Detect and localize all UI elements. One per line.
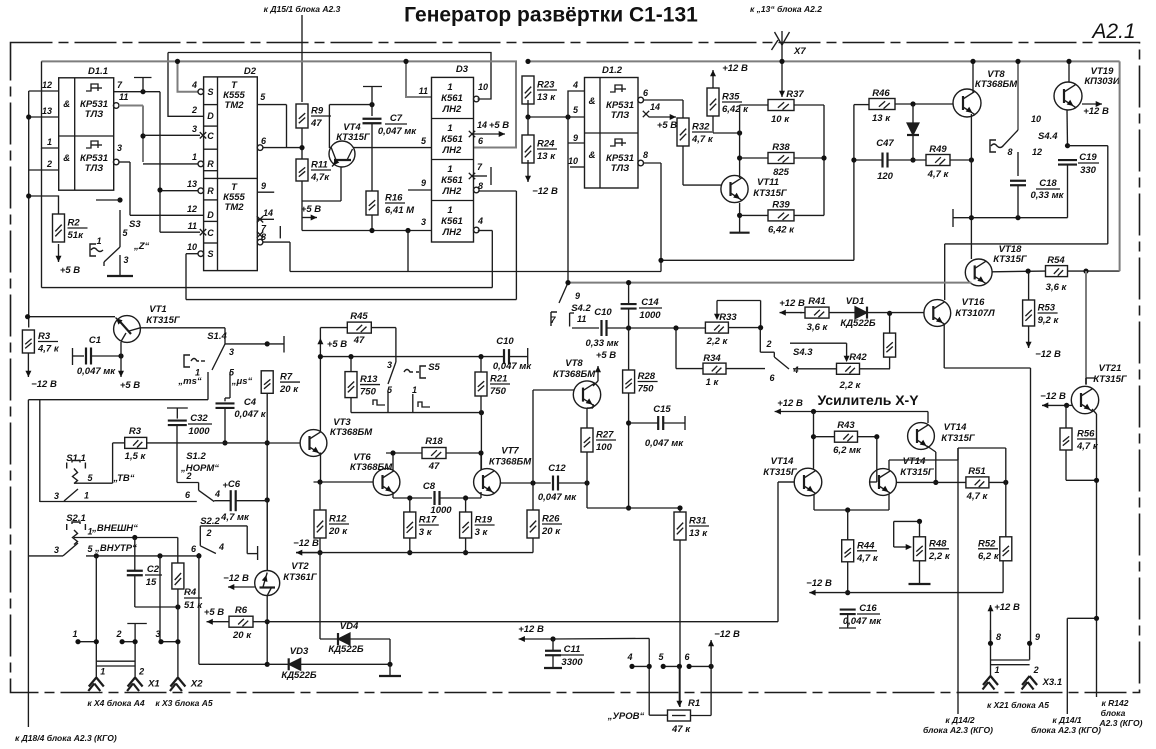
- svg-text:2: 2: [138, 667, 144, 677]
- svg-text:0,047 мк: 0,047 мк: [645, 438, 684, 449]
- wire S2.1 pin5 row: [86, 555, 199, 557]
- svg-text:11: 11: [577, 314, 586, 324]
- transistor VT7: [474, 469, 501, 496]
- svg-text:к Д14/2: к Д14/2: [945, 715, 975, 725]
- svg-text:S4.2: S4.2: [571, 303, 591, 314]
- svg-text:47: 47: [428, 461, 440, 472]
- label VT11: [757, 177, 779, 188]
- resistor R32: [677, 118, 714, 146]
- label C7: [378, 113, 417, 137]
- svg-text:ТЛЗ: ТЛЗ: [85, 109, 103, 120]
- svg-text:2: 2: [46, 159, 52, 169]
- capacitor C18: [1010, 181, 1026, 186]
- capacitor C19: [1058, 160, 1077, 165]
- svg-text:VT2: VT2: [291, 561, 309, 572]
- wire VD1 to VT16: [867, 312, 924, 314]
- switch S1.2: [185, 471, 220, 502]
- label -12 В R53: [1035, 349, 1061, 360]
- svg-text:120: 120: [877, 171, 894, 182]
- junction: [626, 505, 631, 510]
- wire R3 left to S1.1 pin5: [74, 443, 125, 483]
- svg-text:D1.1: D1.1: [88, 66, 108, 77]
- arrow -12V rail: [296, 550, 320, 556]
- svg-text:S1.4: S1.4: [207, 331, 227, 342]
- svg-text:к Х3 блока А5: к Х3 блока А5: [155, 698, 213, 708]
- svg-text:+5 В: +5 В: [596, 350, 616, 361]
- wire x649 down: [649, 638, 667, 715]
- svg-text:R56: R56: [1077, 429, 1095, 440]
- svg-text:3: 3: [192, 124, 197, 134]
- wire R16 bottom: [371, 215, 373, 231]
- label УРОВ: [607, 711, 645, 722]
- svg-text:КТ368БМ: КТ368БМ: [975, 79, 1018, 90]
- svg-text:47: 47: [353, 335, 365, 346]
- junction X7 node: [779, 59, 784, 64]
- wire C15 left: [629, 422, 659, 424]
- svg-text:R9: R9: [311, 106, 324, 117]
- wire D1.2 pin10 stub: [570, 166, 585, 168]
- svg-text:0,047 мк: 0,047 мк: [378, 126, 417, 137]
- svg-text:3,6 к: 3,6 к: [1046, 282, 1068, 293]
- junction: [369, 102, 374, 107]
- wire VT4 collector up: [329, 105, 372, 148]
- svg-text:0,047 мк: 0,047 мк: [538, 492, 577, 503]
- arrow +5V at D3 pin14: [474, 131, 505, 137]
- svg-text:4: 4: [792, 365, 798, 375]
- wire R41 to VD1: [829, 312, 855, 314]
- connector X1 pin2: [127, 667, 160, 692]
- X mark D2 pin7: [257, 232, 263, 238]
- arrow -12V pin6: [708, 640, 714, 652]
- arrow R2 to +5V: [56, 244, 62, 262]
- label 0,047 мк C12: [538, 492, 577, 503]
- label C47: [876, 138, 894, 149]
- junction: [811, 434, 816, 439]
- label VT19: [1091, 66, 1114, 77]
- svg-text:A2.1: A2.1: [1090, 20, 1135, 43]
- wire S1.4 pin5 to C4: [225, 372, 230, 401]
- wire VD3 right: [301, 663, 390, 665]
- svg-text:ЛН2: ЛН2: [442, 145, 462, 156]
- svg-text:11: 11: [188, 221, 197, 231]
- junction pin7: [140, 89, 145, 94]
- wire R56 top: [1065, 405, 1067, 428]
- label КТ315Г at VT18: [993, 254, 1028, 265]
- svg-text:X3.1: X3.1: [1042, 677, 1063, 688]
- wire C10 right bar: [509, 348, 528, 364]
- wire rail x813 down: [813, 412, 815, 469]
- svg-text:20 к: 20 к: [232, 630, 252, 641]
- svg-text:Генератор развёртки С1-131: Генератор развёртки С1-131: [404, 4, 698, 27]
- label VT14 top: [944, 422, 967, 433]
- svg-text:КТ315Г: КТ315Г: [941, 433, 976, 444]
- switch S1.1: [54, 453, 135, 501]
- wire C6 right: [236, 500, 267, 502]
- wire R18 right: [446, 453, 481, 470]
- capacitor C14: [621, 304, 637, 309]
- wire R33 wiper loop: [717, 301, 761, 328]
- svg-text:C16: C16: [859, 603, 877, 614]
- junction: [175, 59, 180, 64]
- svg-text:C10: C10: [594, 307, 612, 318]
- label VT7: [501, 446, 519, 457]
- junction: [969, 215, 974, 220]
- switch S5: [373, 360, 441, 407]
- wire C19 bottom: [1067, 165, 1069, 218]
- resistor R43: [833, 420, 862, 456]
- switch S4.2: [550, 283, 591, 327]
- svg-text:VT14: VT14: [771, 456, 794, 467]
- junction: [565, 280, 570, 285]
- arrow -12V VT21: [1042, 402, 1067, 408]
- svg-text:D1.2: D1.2: [602, 65, 623, 76]
- svg-text:+12 В: +12 В: [777, 398, 803, 409]
- svg-text:S4.3: S4.3: [793, 347, 813, 358]
- wire VT2 emitter rail: [266, 500, 268, 571]
- wire C15 right bar: [663, 416, 685, 430]
- switch S4.3: [760, 328, 813, 383]
- resistor R37 potentiometer: [768, 89, 804, 125]
- IC D1.1 КР531ТЛ3: [42, 66, 128, 190]
- arrow VT2 base -12V: [228, 584, 255, 590]
- resistor R2: [53, 214, 88, 242]
- capacitor C16: [840, 610, 856, 615]
- svg-text:к Д15/1 блока А2.3: к Д15/1 блока А2.3: [264, 4, 341, 14]
- label КП303И: [1084, 76, 1120, 87]
- wire R44 top: [847, 510, 849, 540]
- resistor R18: [422, 436, 446, 472]
- junction: [658, 258, 663, 263]
- label C6: [228, 479, 241, 490]
- svg-text:2: 2: [191, 105, 197, 115]
- junction: [157, 187, 162, 192]
- wire D2 pin13 stub: [160, 190, 198, 192]
- label КД522Б VD4: [328, 644, 364, 655]
- svg-text:„ВНУТР“: „ВНУТР“: [94, 543, 137, 554]
- junction: [988, 641, 993, 646]
- cable bars X3.1: [991, 660, 1030, 665]
- wire VD3 row: [267, 663, 289, 665]
- svg-text:−12 В: −12 В: [293, 538, 319, 549]
- terminator above pin7: [134, 78, 152, 92]
- svg-text:КТ315Г: КТ315Г: [336, 132, 371, 143]
- wire R26 bottom: [532, 538, 534, 553]
- svg-text:3 к: 3 к: [475, 527, 489, 538]
- label КТ368БМ VT7: [489, 457, 532, 468]
- junction: [845, 590, 850, 595]
- wire R35 bottom: [713, 116, 740, 133]
- svg-text:4: 4: [214, 489, 220, 499]
- label C15: [653, 404, 671, 415]
- label VT18: [999, 244, 1022, 255]
- svg-text:А2.3 (КГО): А2.3 (КГО): [1099, 718, 1143, 728]
- svg-text:0,33 мк: 0,33 мк: [1031, 190, 1065, 201]
- wire R51 right: [989, 481, 1006, 483]
- pin 8 X3.1: [996, 632, 1001, 642]
- wire x676 down: [675, 328, 677, 369]
- wire rail x41 to pin1: [42, 61, 59, 148]
- resistor R53: [1023, 300, 1060, 326]
- resistor R38: [768, 142, 794, 178]
- svg-text:VT16: VT16: [962, 297, 985, 308]
- junction: [758, 325, 763, 330]
- svg-text:&: &: [589, 96, 596, 107]
- label +12 В above R35: [722, 63, 748, 74]
- junction: [1094, 616, 1099, 621]
- svg-text:+12 В: +12 В: [518, 624, 544, 635]
- svg-text:6,41 М: 6,41 М: [385, 205, 415, 216]
- svg-text:к Д18/4 блока А2.3 (КГО): к Д18/4 блока А2.3 (КГО): [15, 733, 117, 743]
- label VT2: [291, 561, 309, 572]
- svg-text:13 к: 13 к: [537, 92, 556, 103]
- svg-text:13: 13: [42, 106, 52, 116]
- resistor R52: [978, 537, 1012, 562]
- svg-text:R16: R16: [385, 193, 403, 204]
- transistor VT21: [1071, 386, 1098, 413]
- wire VT6 emitter: [393, 492, 432, 498]
- resistor R9: [296, 104, 331, 129]
- label КТ315Г at VT11: [753, 188, 788, 199]
- svg-text:R1: R1: [688, 698, 700, 709]
- svg-text:C19: C19: [1079, 152, 1097, 163]
- connector X3.1 pin1: [983, 665, 1000, 690]
- svg-text:3: 3: [54, 545, 59, 555]
- svg-text:VD1: VD1: [846, 296, 864, 307]
- junction: [687, 664, 692, 669]
- wire X2 pin3 stub: [161, 641, 178, 643]
- arrow R35 to +12V: [710, 70, 716, 88]
- pin 4: [626, 652, 632, 662]
- wire R13 top: [350, 357, 352, 372]
- svg-text:ТЛЗ: ТЛЗ: [611, 110, 629, 121]
- svg-text:к R142: к R142: [1102, 698, 1129, 708]
- arrow R42 wiper: [844, 343, 850, 362]
- wire S1.4 common to rail: [225, 343, 267, 345]
- svg-text:−12 В: −12 В: [1035, 349, 1061, 360]
- wire right rail x824: [794, 105, 824, 215]
- svg-text:X1: X1: [147, 679, 160, 690]
- resistor R27: [581, 428, 616, 453]
- svg-text:12: 12: [187, 204, 197, 214]
- svg-text:к Д14/1: к Д14/1: [1052, 715, 1082, 725]
- svg-text:+5 В: +5 В: [657, 120, 677, 131]
- svg-text:VT8: VT8: [565, 358, 583, 369]
- junction VT21 base node: [1064, 403, 1069, 408]
- svg-text:КТ315Г: КТ315Г: [993, 254, 1028, 265]
- svg-text:ЛН2: ЛН2: [442, 227, 462, 238]
- wire to D1.2 pin4: [568, 91, 585, 117]
- label КД522Б VD3: [281, 670, 317, 681]
- svg-text:3,6 к: 3,6 к: [807, 322, 829, 333]
- wire VT11 collector rail: [740, 105, 768, 178]
- resistor R24: [522, 135, 557, 163]
- wire rail x198 down: [199, 556, 267, 664]
- resistor R16: [366, 191, 415, 216]
- svg-text:C12: C12: [548, 463, 566, 474]
- svg-text:R28: R28: [638, 371, 656, 382]
- junction: [479, 410, 484, 415]
- svg-text:3: 3: [54, 491, 59, 501]
- resistor R3 1.5k: [125, 426, 147, 462]
- junction: [917, 519, 922, 524]
- svg-text:VT7: VT7: [501, 446, 519, 457]
- svg-text:+5 В: +5 В: [120, 380, 140, 391]
- wire VT8mid base: [533, 390, 574, 483]
- label КТ368БМ VT3: [330, 427, 373, 438]
- wire R12 bottom: [319, 538, 321, 553]
- svg-text:4: 4: [477, 216, 483, 226]
- label C1: [89, 335, 101, 346]
- arrow R53 -12V: [1026, 326, 1032, 348]
- svg-text:2: 2: [185, 471, 191, 481]
- arrow VT8mid +5V: [595, 350, 616, 372]
- svg-text:C7: C7: [390, 113, 403, 124]
- svg-text:блока А2.3 (КГО): блока А2.3 (КГО): [923, 725, 993, 735]
- IC D1.2 КР531ТЛ3: [568, 65, 660, 188]
- wire +5V rail y356: [320, 356, 504, 358]
- junction: [565, 114, 570, 119]
- arrow +12V XY: [775, 409, 814, 415]
- svg-text:+5 В: +5 В: [327, 339, 347, 350]
- junction: [647, 664, 652, 669]
- svg-text:КТ368БМ: КТ368БМ: [330, 427, 373, 438]
- svg-text:S1.1: S1.1: [66, 453, 86, 464]
- wire x958 output: [958, 447, 1006, 449]
- svg-text:КТ315Г: КТ315Г: [763, 467, 798, 478]
- svg-text:C6: C6: [228, 479, 241, 490]
- label к R142: [1102, 698, 1129, 708]
- pin 6: [684, 652, 690, 662]
- svg-text:8: 8: [996, 632, 1001, 642]
- wire R3 right to rail: [147, 442, 267, 444]
- svg-text:C32: C32: [190, 413, 208, 424]
- svg-text:2: 2: [115, 629, 121, 639]
- svg-text:1: 1: [47, 137, 52, 147]
- wire X7 down: [781, 45, 783, 61]
- svg-text:КТ315Г: КТ315Г: [900, 467, 935, 478]
- label C14: [639, 297, 662, 321]
- svg-text:R44: R44: [857, 540, 875, 551]
- svg-text:R42: R42: [849, 352, 867, 363]
- terminator above C7: [363, 87, 382, 117]
- wire y412 row: [351, 390, 481, 413]
- wire R31 top: [679, 508, 681, 512]
- resistor R13: [345, 372, 380, 398]
- label VD1: [846, 296, 864, 307]
- wire -12V row XY: [809, 561, 1003, 592]
- ground under R48: [909, 583, 931, 585]
- label КД522Б VD1: [840, 318, 876, 329]
- resistor R7: [261, 371, 300, 395]
- label КТ315Г: [336, 132, 371, 143]
- junction: [478, 354, 483, 359]
- transistor VT8 top: [953, 89, 981, 117]
- wire D2 pin10 stub: [186, 253, 198, 255]
- junction: [626, 280, 631, 285]
- switch S3: [90, 210, 150, 265]
- svg-text:К561: К561: [441, 175, 463, 186]
- wire to D2 pin R1: [143, 163, 198, 165]
- resistor R54: [1046, 255, 1068, 293]
- arrow VT1 emitter +5V: [118, 356, 124, 377]
- wire VD4 feed: [320, 553, 338, 639]
- wire R41 left: [800, 312, 805, 314]
- wire R17 bottom: [409, 538, 411, 553]
- wire R43 left: [814, 436, 835, 438]
- junction: [478, 450, 483, 455]
- wire D1.2 pin9 feed: [568, 117, 585, 143]
- svg-text:3: 3: [229, 347, 234, 357]
- label КТ315Г 14t: [941, 433, 976, 444]
- svg-text:2,2 к: 2,2 к: [839, 380, 862, 391]
- capacitor C12: [553, 476, 558, 491]
- svg-text:9,2 к: 9,2 к: [1038, 315, 1060, 326]
- wire VT1 emitter: [120, 342, 122, 356]
- IC D2 К555ТМ2: [187, 66, 273, 271]
- label +5 В: [60, 265, 80, 276]
- svg-text:C4: C4: [244, 397, 257, 408]
- wire S4.4 pin12 to C18: [1017, 152, 1019, 176]
- wire X1 pin2 stub: [122, 641, 135, 643]
- svg-text:14: 14: [650, 102, 660, 112]
- wire k R142 down: [1096, 618, 1098, 697]
- svg-text:51 к: 51 к: [184, 600, 203, 611]
- label VT21: [1099, 363, 1122, 374]
- net label к Д15/1 блока А2.3: [264, 4, 341, 14]
- label 0,047 мк under C1: [77, 366, 116, 377]
- wire R49 right: [950, 159, 971, 161]
- wire R34 right: [726, 368, 765, 370]
- svg-text:S: S: [207, 87, 213, 97]
- label C12: [548, 463, 566, 474]
- svg-text:КТ315Г: КТ315Г: [1093, 374, 1128, 385]
- wire pin4 stub: [632, 665, 649, 667]
- svg-text:C: C: [207, 131, 214, 141]
- svg-text:D2: D2: [244, 66, 257, 77]
- junction R9 R11: [299, 145, 304, 150]
- svg-text:X2: X2: [190, 679, 203, 690]
- svg-text:блока А2.3 (КГО): блока А2.3 (КГО): [1031, 725, 1101, 735]
- label 0,047 мк C16: [843, 616, 882, 627]
- wire VT8 collector: [972, 61, 974, 93]
- wire C16 bottom bar: [839, 614, 856, 628]
- svg-text:к „13“ блока А2.2: к „13“ блока А2.2: [750, 4, 822, 14]
- svg-text:1: 1: [72, 629, 77, 639]
- capacitor C47: [883, 153, 888, 168]
- svg-text:4: 4: [626, 652, 632, 662]
- label +5 В near R11: [301, 204, 321, 215]
- wire to D2 pin C3: [143, 134, 200, 136]
- wire R34 left: [676, 368, 703, 370]
- wire S2.1 pin3: [28, 555, 63, 557]
- svg-text:S4.4: S4.4: [1038, 131, 1058, 142]
- svg-text:R52: R52: [978, 538, 996, 549]
- capacitor C10 0.047: [504, 349, 509, 364]
- svg-text:S1.2: S1.2: [186, 451, 206, 462]
- label 120: [877, 171, 894, 182]
- svg-text:R6: R6: [235, 605, 248, 616]
- junction S3 top: [117, 197, 122, 202]
- wire X2 pin3 drop: [159, 556, 161, 642]
- svg-text:1: 1: [96, 236, 101, 246]
- svg-text:11: 11: [419, 86, 428, 96]
- label КТ361Г: [283, 572, 318, 583]
- capacitor C2: [127, 571, 143, 576]
- svg-text:„ТВ“: „ТВ“: [112, 473, 134, 484]
- wire branch to left down: [1067, 618, 1096, 714]
- junction: [737, 213, 742, 218]
- wire VT1 base: [28, 316, 115, 318]
